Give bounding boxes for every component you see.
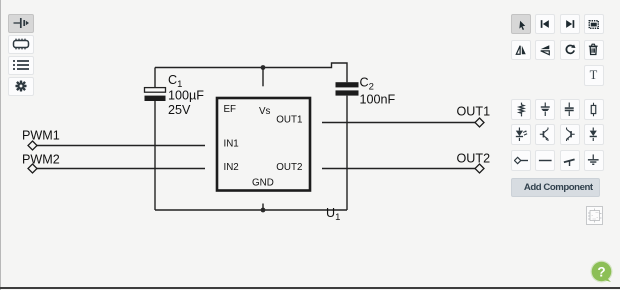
svg-text:IN2: IN2 xyxy=(224,162,239,173)
junction: Vs supply node dot xyxy=(261,65,266,70)
label C1 reference designator xyxy=(168,73,182,90)
label C1 value 100uF xyxy=(168,89,204,103)
svg-text:PWM1: PWM1 xyxy=(22,128,60,142)
wire: GND pin stub from U1 down to ground rail xyxy=(262,204,264,211)
svg-text:100µF: 100µF xyxy=(168,89,204,103)
palette r1c2: polarized capacitor xyxy=(535,99,555,120)
top toolbar: select cursor (active) xyxy=(511,14,531,34)
palette r2c4: diode xyxy=(584,124,604,145)
top toolbar: undo / step-back xyxy=(535,14,555,34)
junction: GND node dot xyxy=(261,208,266,213)
left sidebar button: settings gear tab xyxy=(8,77,34,96)
wire: U1 OUT1 to OUT1 terminal xyxy=(322,122,475,124)
label C2 reference designator xyxy=(360,75,374,92)
top toolbar: flip vertical xyxy=(535,40,555,60)
bottom edge border xyxy=(0,287,620,289)
wire: top supply net from C1 top to C2 top (with jog) xyxy=(155,63,347,82)
capacitor C2 xyxy=(336,82,359,210)
svg-text:OUT1: OUT1 xyxy=(276,115,302,126)
top toolbar: delete/trash xyxy=(584,40,604,60)
palette r1c1: inductor xyxy=(511,99,531,120)
top toolbar: text tool T xyxy=(584,65,604,86)
svg-text:100nF: 100nF xyxy=(360,93,396,107)
svg-text:C1: C1 xyxy=(168,73,182,90)
palette r3c3: probe xyxy=(560,150,580,171)
pin label IN1 xyxy=(224,139,239,150)
node OUT1 terminal diamond xyxy=(475,118,484,127)
svg-text:?: ? xyxy=(597,264,605,279)
palette r2c1: LED xyxy=(511,124,531,145)
top toolbar: flip horizontal xyxy=(511,40,531,60)
wire: PWM1 to U1 IN1 xyxy=(37,145,205,147)
palette r2c2: NPN transistor xyxy=(535,124,555,145)
svg-text:IN1: IN1 xyxy=(224,139,239,150)
top toolbar: redo / step-forward xyxy=(560,14,580,34)
label OUT1 xyxy=(457,104,491,118)
palette r2c3: PNP transistor xyxy=(560,124,580,145)
left sidebar button: netlist tab xyxy=(8,56,34,75)
wire: U1 OUT2 to OUT2 terminal xyxy=(322,168,475,170)
wire: PWM2 to U1 IN2 xyxy=(37,168,205,170)
pin label EF xyxy=(224,104,237,115)
svg-text:PWM2: PWM2 xyxy=(22,152,60,166)
capacitor C1 (polarized) xyxy=(145,68,166,102)
component preview thumbnail xyxy=(586,206,603,225)
left edge border xyxy=(0,0,1,290)
pin label Vs xyxy=(259,106,271,117)
label C1 rating 25V xyxy=(168,103,191,117)
left sidebar button: components tab (selected) xyxy=(8,14,34,33)
Add Component button xyxy=(511,178,600,197)
wire: bottom ground rail xyxy=(155,209,347,211)
left sidebar button: IC/chip tab xyxy=(8,35,34,54)
palette r3c2: wire xyxy=(535,150,555,171)
palette r3c4: ground xyxy=(584,150,604,171)
palette r1c4: fuse xyxy=(584,99,604,120)
top toolbar: rotate xyxy=(560,40,580,60)
label PWM2 xyxy=(22,152,60,166)
label PWM1 xyxy=(22,128,60,142)
wire: left vertical net from C1 bottom to ground rail xyxy=(154,101,156,210)
svg-text:OUT2: OUT2 xyxy=(457,151,491,165)
svg-text:OUT2: OUT2 xyxy=(276,162,302,173)
IC U1 body xyxy=(217,98,310,191)
svg-text:OUT1: OUT1 xyxy=(457,104,491,118)
node PWM2 terminal diamond xyxy=(28,164,37,173)
svg-text:EF: EF xyxy=(224,104,237,115)
palette r3c1: terminal node xyxy=(511,150,531,171)
top toolbar: screenshot/export xyxy=(584,14,604,34)
svg-text:C2: C2 xyxy=(360,75,374,92)
svg-text:GND: GND xyxy=(252,178,274,189)
pin label OUT2 xyxy=(276,162,302,173)
svg-text:25V: 25V xyxy=(168,103,191,117)
svg-text:Vs: Vs xyxy=(259,106,271,117)
palette r1c3: capacitor xyxy=(560,99,580,120)
wire: Vs pin stub from top net down toward U1 xyxy=(262,68,264,87)
pin label GND xyxy=(252,178,274,189)
label C2 value 100nF xyxy=(360,93,396,107)
node OUT2 terminal diamond xyxy=(475,164,484,173)
label U1 reference designator xyxy=(326,206,340,223)
help bubble xyxy=(591,261,612,282)
node PWM1 terminal diamond xyxy=(28,141,37,150)
pin label IN2 xyxy=(224,162,239,173)
svg-text:U1: U1 xyxy=(326,206,340,223)
label OUT2 xyxy=(457,151,491,165)
pin label OUT1 xyxy=(276,115,302,126)
